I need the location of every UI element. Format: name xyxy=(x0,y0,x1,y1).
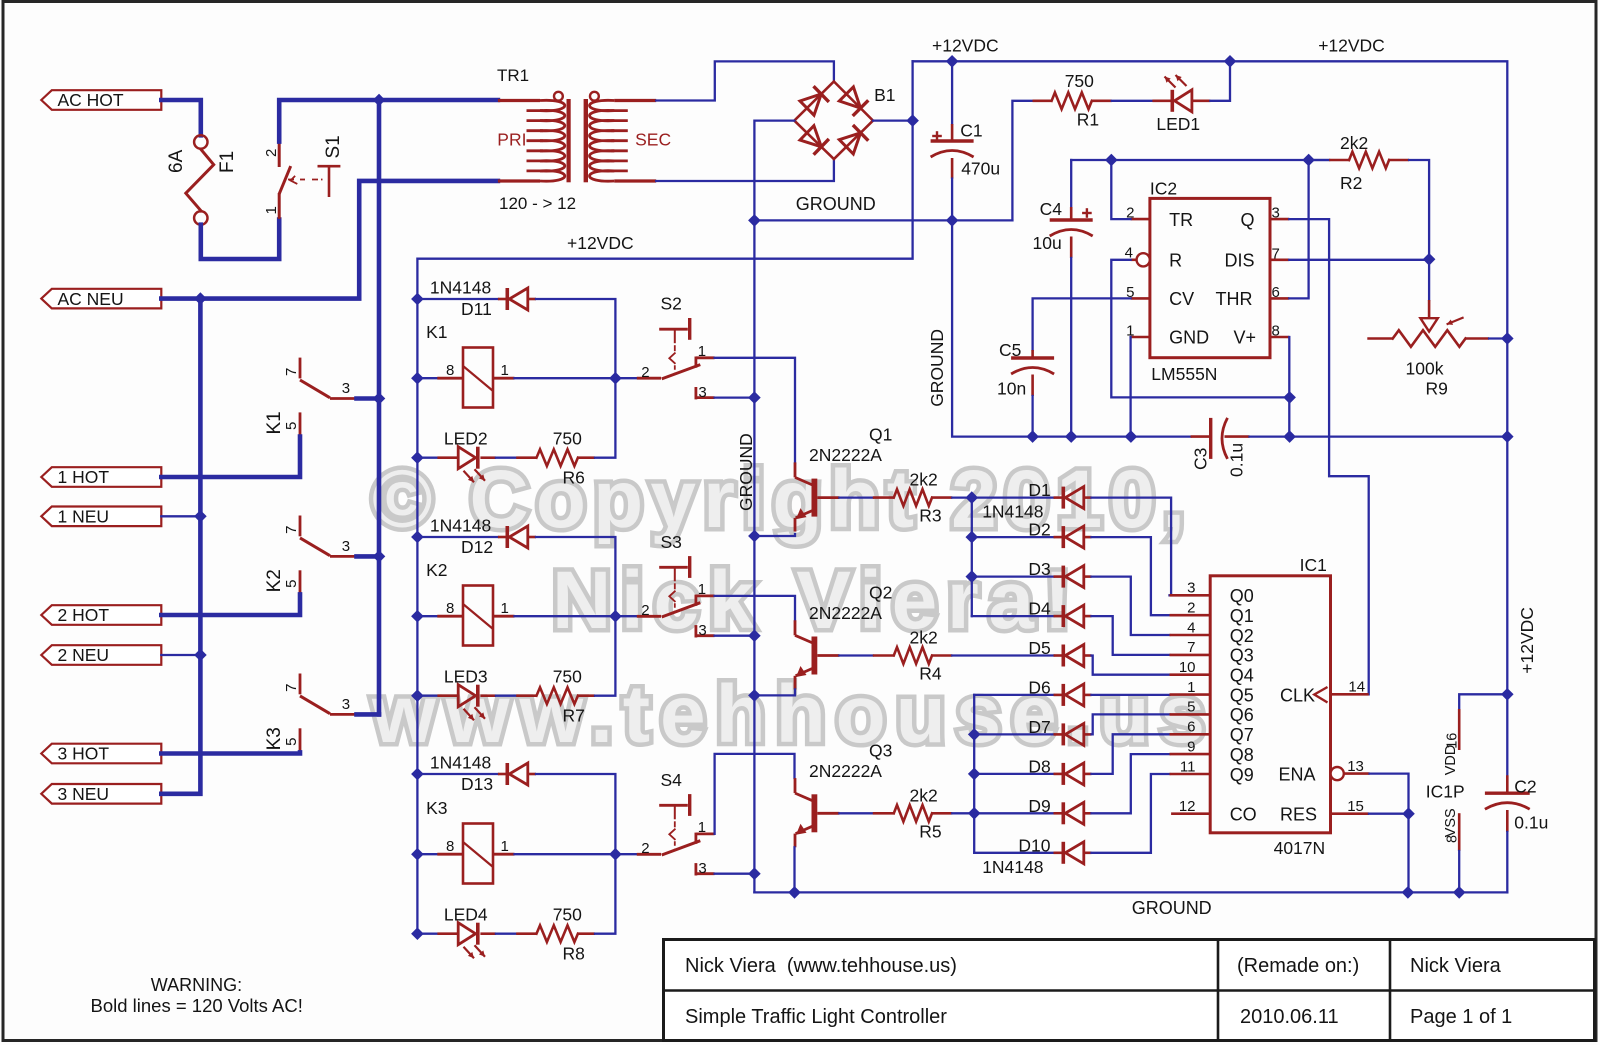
junction D8 cathode xyxy=(969,768,980,779)
switch S3 pin 1 contact xyxy=(696,595,715,606)
svg-text:1N4148: 1N4148 xyxy=(430,278,491,298)
R7 name xyxy=(563,705,585,725)
svg-text:10n: 10n xyxy=(997,379,1026,399)
IC2 pin 7 number xyxy=(1272,245,1280,262)
svg-text:D9: D9 xyxy=(1028,796,1050,816)
wire fuse to S1 pin1 xyxy=(201,220,279,260)
junction K3 coil pin1 xyxy=(610,849,621,860)
svg-text:2k2: 2k2 xyxy=(910,785,938,805)
diode D4 xyxy=(1054,605,1092,627)
S1 pin 1 number xyxy=(263,206,280,214)
IC2 pin 2 number xyxy=(1126,205,1134,222)
IC1 pin 12 lead xyxy=(1171,812,1210,815)
wire +12 to VDD pin xyxy=(1459,694,1507,709)
wire S1 pin2 to transformer primary top xyxy=(279,100,498,142)
wire CV to C5 xyxy=(1033,298,1131,350)
wire LED1 to +12 rail xyxy=(1210,61,1230,101)
IC1 pin 9 number xyxy=(1187,738,1195,755)
svg-text:1 HOT: 1 HOT xyxy=(58,467,110,487)
svg-text:1N4148: 1N4148 xyxy=(430,516,491,536)
svg-text:3: 3 xyxy=(698,622,706,639)
wire R1 to LED1 xyxy=(1112,100,1153,102)
svg-text:3: 3 xyxy=(342,538,350,555)
op-amp U IC2 box xyxy=(1150,198,1270,357)
svg-text:Q2: Q2 xyxy=(869,583,892,603)
IC1 pin 1 lead xyxy=(1170,693,1211,696)
svg-text:V+: V+ xyxy=(1234,328,1257,348)
svg-text:K2: K2 xyxy=(264,569,285,592)
junction K1 pin3 on bus xyxy=(373,393,384,404)
connector 3 NEU xyxy=(41,784,161,804)
svg-text:1: 1 xyxy=(263,206,280,214)
svg-text:2k2: 2k2 xyxy=(910,628,938,648)
IC2 pin 6 number xyxy=(1272,284,1280,301)
IC1 pin 1 number xyxy=(1187,679,1195,696)
R2 name xyxy=(1340,173,1362,193)
svg-text:7: 7 xyxy=(1272,245,1280,262)
connector AC HOT xyxy=(41,90,161,110)
wire R9 to +12 xyxy=(1489,337,1507,339)
LED LED3 xyxy=(437,685,496,721)
svg-text:R9: R9 xyxy=(1426,379,1448,399)
svg-text:8: 8 xyxy=(1445,835,1461,843)
svg-text:3: 3 xyxy=(342,380,350,397)
S4 pin 2 number xyxy=(641,840,649,857)
junction V+ at C3 rail xyxy=(1284,431,1295,442)
wire S3 pin3 to ground bus xyxy=(715,635,755,637)
IC2 pin 2 lead xyxy=(1131,218,1150,221)
GROUND label bottom xyxy=(1132,898,1212,918)
wire D4 cathode lead xyxy=(972,615,1054,617)
IC2 pin 4 bubble and lead xyxy=(1131,253,1150,266)
transformer winding label PRI xyxy=(497,130,526,150)
IC1 pin label Q9 xyxy=(1230,765,1254,785)
wire TR riser xyxy=(1111,160,1130,219)
svg-text:Q8: Q8 xyxy=(1230,745,1254,765)
svg-text:15: 15 xyxy=(1347,798,1364,815)
relay contact K2 blade xyxy=(300,538,330,556)
diode name D8 xyxy=(1028,756,1050,776)
watermark line 3 xyxy=(371,669,1205,760)
GROUND label upper xyxy=(796,194,876,214)
IC2 pin label GND xyxy=(1169,328,1209,348)
svg-text:R3: R3 xyxy=(919,506,941,526)
wire Q3 base to R xyxy=(839,812,872,814)
svg-text:D8: D8 xyxy=(1028,756,1050,776)
wire C4 top lead xyxy=(1070,160,1072,207)
svg-text:5: 5 xyxy=(283,738,300,746)
svg-text:S3: S3 xyxy=(661,532,682,552)
wire R3 to D1-D4 cathodes xyxy=(952,496,972,498)
wire D9 cathode lead xyxy=(974,812,1053,814)
wire K1 pin5 to 1 HOT xyxy=(161,437,300,478)
diode name D11 xyxy=(461,299,492,319)
junction K1 coil pin1 xyxy=(610,373,621,384)
IC2 pin label V+ xyxy=(1234,328,1257,348)
IC2 pin label R xyxy=(1169,251,1182,271)
svg-text:100k: 100k xyxy=(1406,359,1444,379)
diode name D1 xyxy=(1028,480,1050,500)
svg-text:R4: R4 xyxy=(919,664,942,684)
IC1 pin 7 lead xyxy=(1170,654,1211,657)
IC2 pin 1 lead xyxy=(1131,336,1150,339)
wire C5 bottom lead xyxy=(1031,396,1033,437)
svg-text:Bold lines = 120 Volts AC!: Bold lines = 120 Volts AC! xyxy=(91,995,303,1016)
S4 pin 3 number xyxy=(698,860,706,877)
wire +12 riser and relay rail xyxy=(417,61,912,933)
svg-text:GROUND: GROUND xyxy=(927,329,947,407)
junction +12 rail at D11 row xyxy=(412,293,423,304)
diode name D12 xyxy=(461,537,493,557)
R1 value 750 xyxy=(1065,71,1094,91)
svg-text:Page 1 of 1: Page 1 of 1 xyxy=(1410,1006,1512,1028)
svg-text:D3: D3 xyxy=(1028,559,1050,579)
svg-text:+12VDC: +12VDC xyxy=(1318,36,1385,56)
relay coil K3 xyxy=(437,824,514,884)
wire AC HOT to fuse xyxy=(161,100,201,135)
K3 pin 7 number xyxy=(283,684,300,692)
switch S3 button cap xyxy=(659,556,690,611)
op-amp U IC1 box xyxy=(1210,576,1330,833)
IC1 pin 5 number xyxy=(1187,699,1195,716)
junction IC2 GND rail xyxy=(1125,431,1136,442)
wire THR riser xyxy=(1289,160,1308,298)
svg-text:D6: D6 xyxy=(1028,677,1050,697)
junction 1 NEU xyxy=(195,511,206,522)
connector 2 NEU xyxy=(41,645,161,665)
relay K3 pin 8 number xyxy=(446,838,454,855)
diode name D10 xyxy=(1018,835,1050,855)
svg-text:7: 7 xyxy=(283,526,300,534)
svg-text:0.1u: 0.1u xyxy=(1226,443,1246,477)
IC2 pin 7 lead xyxy=(1270,258,1289,261)
relay K1 name xyxy=(426,322,447,342)
junction Q1 emitter xyxy=(749,530,760,541)
svg-text:THR: THR xyxy=(1216,289,1253,309)
C1 value 470u xyxy=(961,159,1000,179)
wire S3 pin1 to Q2 collector xyxy=(715,596,795,620)
IC2 pin label Q xyxy=(1241,210,1255,230)
R3 name xyxy=(919,506,941,526)
IC1 pin 11 number xyxy=(1180,758,1196,775)
wire ground riser to 555 rail xyxy=(952,220,1191,436)
IC1 pin 4 lead xyxy=(1170,634,1211,637)
svg-text:8: 8 xyxy=(446,600,454,617)
transformer ratio label xyxy=(499,194,576,213)
wire D8 cathode lead xyxy=(974,773,1053,775)
svg-text:IC1: IC1 xyxy=(1300,555,1327,575)
svg-text:C5: C5 xyxy=(999,340,1021,360)
switch S4 pin 3 contact xyxy=(696,863,715,875)
transistor Q1 xyxy=(795,462,839,531)
S1 pin 2 number xyxy=(263,149,280,157)
junction D7 cathode xyxy=(969,729,980,740)
resistor R8 xyxy=(516,925,595,942)
R6 name xyxy=(563,467,585,487)
wire K1 coil pin8 lead xyxy=(417,377,437,379)
svg-text:Q4: Q4 xyxy=(1230,666,1254,686)
IC2 pin 1 number xyxy=(1126,323,1134,340)
wire AC NEU to primary bottom xyxy=(161,181,498,299)
svg-text:3: 3 xyxy=(698,384,706,401)
wire D1 to IC1 pin xyxy=(1092,498,1172,596)
relay contact name K2 xyxy=(264,569,285,592)
junction D9 cathode xyxy=(969,808,980,819)
C3 name xyxy=(1190,448,1210,470)
svg-text:Simple Traffic Light Controlle: Simple Traffic Light Controller xyxy=(685,1006,947,1028)
svg-text:Q5: Q5 xyxy=(1230,685,1254,705)
svg-text:2: 2 xyxy=(641,364,649,381)
svg-text:Q7: Q7 xyxy=(1230,725,1254,745)
Q2 type 2N2222A xyxy=(809,603,882,623)
C5 value 10n xyxy=(997,379,1026,399)
junction +12 rail at K3 coil row xyxy=(412,849,423,860)
IC2 pin 8 number xyxy=(1272,323,1280,340)
svg-text:IC2: IC2 xyxy=(1150,179,1177,199)
svg-text:5: 5 xyxy=(283,580,300,588)
svg-text:DIS: DIS xyxy=(1225,251,1255,271)
svg-text:6: 6 xyxy=(1272,284,1280,301)
resistor R1 xyxy=(1033,93,1112,110)
svg-text:7: 7 xyxy=(283,684,300,692)
Q3 name xyxy=(869,740,892,760)
svg-text:5: 5 xyxy=(283,422,300,430)
wire ground rail upper xyxy=(754,219,1012,221)
IC2 pin 4 number xyxy=(1125,244,1133,261)
svg-text:2N2222A: 2N2222A xyxy=(809,603,882,623)
C4 name xyxy=(1040,199,1063,219)
junction 2 NEU xyxy=(195,649,206,660)
IC1 pin 11 lead xyxy=(1170,773,1211,776)
wire DIS to R9 wiper xyxy=(1428,259,1430,300)
capacitor C3 xyxy=(1191,418,1250,459)
junction R tie xyxy=(1284,392,1295,403)
wire RES to node xyxy=(1369,813,1409,815)
IC2 pin 8 lead xyxy=(1270,336,1289,339)
junction VSS ground xyxy=(1454,887,1465,898)
transformer TR1 xyxy=(498,92,656,183)
relay contact K3 pin 5 stub xyxy=(299,728,302,752)
junction RES ground xyxy=(1402,887,1413,898)
junction TR riser xyxy=(1106,154,1117,165)
svg-text:2: 2 xyxy=(641,602,649,619)
wire TR net rail xyxy=(1071,159,1329,161)
S3 pin 1 number xyxy=(698,581,706,598)
fuse value 6A xyxy=(166,149,187,173)
svg-text:2: 2 xyxy=(1187,600,1195,617)
diode D2 xyxy=(1054,526,1092,548)
wire IC2 GND to rail xyxy=(1129,337,1131,437)
switch S2 blade xyxy=(662,365,701,379)
LED LED4 xyxy=(437,923,496,959)
relay K2 pin 1 number xyxy=(501,600,509,617)
wire RES node to ground rail xyxy=(1407,814,1409,893)
wire D11 to coil node xyxy=(536,299,615,378)
svg-text:1: 1 xyxy=(501,838,509,855)
switch S4 button cap xyxy=(659,794,690,849)
wire C4 bottom lead xyxy=(1070,258,1072,437)
wire S4 pin1 to Q3 collector xyxy=(715,754,795,834)
svg-text:2 NEU: 2 NEU xyxy=(58,645,110,665)
C1 name xyxy=(960,120,982,140)
junction DIS node xyxy=(1424,254,1435,265)
diode name D4 xyxy=(1028,599,1051,619)
diode name D13 xyxy=(461,774,493,794)
R5 value 2k2 xyxy=(910,785,938,805)
wire K1 pin3 to switched-hot bus xyxy=(357,396,380,401)
svg-text:Q1: Q1 xyxy=(869,425,892,445)
junction +12 rail at D12 row xyxy=(412,531,423,542)
svg-text:F1: F1 xyxy=(217,151,238,173)
C2 name xyxy=(1514,777,1536,797)
IC1 type 4017N xyxy=(1274,838,1326,858)
svg-text:3: 3 xyxy=(1272,205,1280,222)
IC2 pin label THR xyxy=(1216,289,1253,309)
wire K2 coil pin1 to S pin2 xyxy=(515,615,637,617)
wire bridge plus to +12 node xyxy=(873,119,913,121)
wire S4 pin3 to ground bus xyxy=(715,873,755,875)
+12VDC label top right xyxy=(1318,36,1385,56)
wire D8 to IC1 pin xyxy=(1092,734,1170,774)
IC1 pin label Q6 xyxy=(1230,705,1254,725)
wire LED2 left xyxy=(417,457,437,459)
svg-text:PRI: PRI xyxy=(497,130,526,150)
svg-text:C2: C2 xyxy=(1514,777,1536,797)
resistor R6 xyxy=(516,449,595,466)
wire Q2 base to R xyxy=(839,654,872,656)
capacitor C2 xyxy=(1485,775,1530,832)
svg-text:AC NEU: AC NEU xyxy=(58,289,124,309)
wire VSS to ground rail xyxy=(1458,851,1460,892)
K2 pin 5 number xyxy=(283,580,300,588)
+12VDC label relay rail xyxy=(567,233,634,253)
label 1N4148 for D13 xyxy=(430,753,491,773)
IC1P VSS pin label xyxy=(1443,808,1459,837)
svg-text:SEC: SEC xyxy=(635,130,671,150)
wire D5 to IC1 pin xyxy=(1092,656,1170,675)
R5 name xyxy=(919,821,941,841)
IC1 pin label Q2 xyxy=(1230,626,1254,646)
wire D9 to IC1 pin xyxy=(1092,754,1170,813)
LED1 name xyxy=(1156,114,1200,134)
wire Q3 emitter to ground rail xyxy=(793,847,795,892)
svg-text:D5: D5 xyxy=(1028,638,1050,658)
IC2 pin label CV xyxy=(1169,289,1194,309)
svg-text:B1: B1 xyxy=(874,85,895,105)
svg-text:11: 11 xyxy=(1180,758,1196,775)
K1 pin 5 number xyxy=(283,422,300,430)
junction C1 top xyxy=(947,56,958,67)
svg-text:4017N: 4017N xyxy=(1274,838,1326,858)
wire R1 left xyxy=(1012,101,1032,221)
R2 value 2k2 xyxy=(1340,133,1368,153)
connector 1 NEU xyxy=(41,507,161,527)
junction C1 ground xyxy=(947,215,958,226)
+12VDC label right vertical xyxy=(1517,607,1537,674)
junction C4 ground xyxy=(1066,431,1077,442)
GROUND label at 555 xyxy=(927,329,947,407)
IC2 pin 3 lead xyxy=(1270,218,1289,221)
IC1 pin label Q4 xyxy=(1230,666,1254,686)
junction bridge plus xyxy=(907,115,918,126)
svg-text:C1: C1 xyxy=(960,120,982,140)
svg-text:1N4148: 1N4148 xyxy=(982,502,1043,522)
svg-text:120 - > 12: 120 - > 12 xyxy=(499,194,576,213)
wire D11 left xyxy=(417,298,498,300)
IC1 pin 10 lead xyxy=(1170,673,1211,676)
fuse name F1 xyxy=(217,151,238,173)
svg-text:GROUND: GROUND xyxy=(1132,898,1212,918)
svg-text:2k2: 2k2 xyxy=(910,470,938,490)
relay K1 pin 1 number xyxy=(501,362,509,379)
svg-text:750: 750 xyxy=(553,428,582,448)
R9 name xyxy=(1426,379,1448,399)
svg-text:D10: D10 xyxy=(1018,835,1050,855)
svg-text:3: 3 xyxy=(342,696,350,713)
svg-text:ENA: ENA xyxy=(1279,764,1316,784)
switch name S4 xyxy=(661,770,683,790)
IC1 pin 15 lead xyxy=(1331,812,1370,815)
svg-text:5: 5 xyxy=(1187,699,1195,716)
capacitor C4 xyxy=(1050,207,1093,258)
K3 pin 5 number xyxy=(283,738,300,746)
wire Q2 emitter to ground bus xyxy=(754,689,795,695)
warning text xyxy=(91,995,303,1016)
svg-text:14: 14 xyxy=(1348,679,1365,696)
svg-text:K1: K1 xyxy=(264,411,285,434)
svg-text:1: 1 xyxy=(501,362,509,379)
wire D7 cathode lead xyxy=(974,733,1053,735)
connector 1 HOT xyxy=(41,467,161,487)
svg-text:CLK: CLK xyxy=(1280,685,1315,705)
svg-text:8: 8 xyxy=(1272,323,1280,340)
transformer name TR1 xyxy=(497,66,529,85)
relay coil K2 xyxy=(437,586,514,646)
title block name cell xyxy=(1410,955,1502,977)
LED LED1 xyxy=(1152,75,1210,112)
wire LED2 to R xyxy=(496,457,516,459)
wire R2 left xyxy=(1309,159,1330,161)
IC2 pin label TR xyxy=(1169,210,1193,230)
wire D6 cathode lead xyxy=(974,694,1053,696)
svg-text:Q: Q xyxy=(1241,210,1255,230)
junction S4 pin3 xyxy=(749,868,760,879)
junction ground rail at bus xyxy=(749,215,760,226)
S3 pin 3 number xyxy=(698,622,706,639)
svg-text:+12VDC: +12VDC xyxy=(567,233,634,253)
wire C1 bottom lead xyxy=(951,179,953,221)
diode D13 xyxy=(498,763,536,785)
junction +12 rail at K1 coil row xyxy=(412,373,423,384)
svg-text:1N4148: 1N4148 xyxy=(982,857,1043,877)
K3 pin 3 number xyxy=(342,696,350,713)
wire K1 coil pin1 to S pin2 xyxy=(515,377,637,379)
diode name D3 xyxy=(1028,559,1050,579)
svg-text:3 HOT: 3 HOT xyxy=(58,744,110,764)
svg-text:LED4: LED4 xyxy=(444,904,488,924)
svg-text:GROUND: GROUND xyxy=(736,433,756,511)
wire S2 pin3 to ground bus xyxy=(715,396,755,398)
svg-text:K3: K3 xyxy=(264,727,285,750)
IC1P pin 16 number xyxy=(1445,733,1461,749)
svg-text:D1: D1 xyxy=(1028,480,1050,500)
diode D6 xyxy=(1054,684,1092,706)
Q1 name xyxy=(869,425,892,445)
junction ENA-RES xyxy=(1403,808,1414,819)
wire C3 to +12 vertical xyxy=(1250,435,1508,437)
wire K3 coil pin8 lead xyxy=(417,853,437,855)
connector 2 HOT xyxy=(41,605,161,625)
